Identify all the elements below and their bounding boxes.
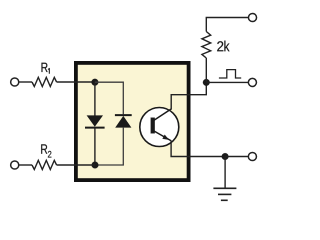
wire: collector up and right to node C bbox=[171, 82, 206, 109]
wire: emitter down and right to node D bbox=[171, 140, 225, 156]
label R1 bbox=[42, 63, 48, 72]
resistor R1 bbox=[32, 77, 57, 86]
wire: R1 into package to anode node bbox=[57, 81, 95, 83]
optocoupler package U1 (yellow body) bbox=[76, 63, 189, 180]
LED D1 (left, cathode down) bbox=[87, 115, 103, 126]
node D (emitter / ground junction) bbox=[222, 153, 229, 160]
wire: node C to output terminal bbox=[206, 81, 248, 83]
terminal VCC (top-right) bbox=[248, 13, 256, 21]
wire: 2k top to VCC terminal bbox=[206, 18, 248, 32]
wire: node C up to 2k resistor bbox=[205, 58, 207, 82]
label 2k bbox=[217, 41, 223, 51]
node B (bottom LED junction) bbox=[92, 162, 99, 169]
node A (top LED junction) bbox=[92, 79, 99, 86]
wire: D2 anode down and left to node B bbox=[95, 128, 123, 165]
label R2 bbox=[41, 144, 47, 153]
terminal IN2 (bottom-left input) bbox=[11, 161, 19, 169]
wire: node A down to diode D1 bbox=[94, 82, 96, 115]
resistor R2 bbox=[32, 160, 57, 169]
terminal OUT (mid-right) bbox=[248, 78, 256, 86]
wire: node D to lower-right terminal bbox=[225, 156, 248, 158]
wire: IN1 terminal to R1 bbox=[19, 81, 32, 83]
terminal IN1 (top-left input) bbox=[11, 78, 19, 86]
phototransistor Q1 bbox=[140, 108, 179, 147]
ground bbox=[213, 187, 236, 189]
node C (collector / 2k junction) bbox=[203, 79, 210, 86]
terminal COM (bottom-right) bbox=[248, 152, 256, 160]
wire: R2 into package to node B bbox=[57, 164, 95, 166]
resistor R3 value 2k bbox=[202, 32, 211, 59]
LED D2 (right, cathode up) bbox=[115, 114, 132, 116]
pulse waveform symbol bbox=[219, 70, 241, 78]
wire: IN2 terminal to R2 bbox=[19, 164, 32, 166]
wire: D1 cathode down to node B bbox=[94, 128, 96, 165]
wire: node A right to D2 branch bbox=[95, 82, 123, 114]
wire: node D down to ground bbox=[224, 157, 226, 189]
